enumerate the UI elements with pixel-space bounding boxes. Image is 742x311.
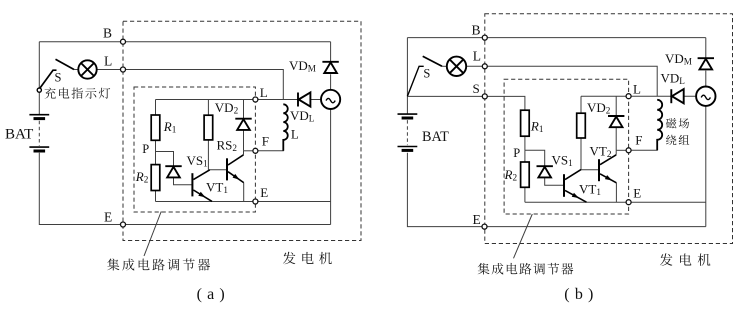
label 绕组 (b)	[666, 135, 689, 145]
transistor VT1 (b)	[564, 170, 587, 203]
charge indicator lamp (a)	[78, 60, 96, 78]
wire: node P to zener VS1 (a)	[156, 152, 174, 167]
diode VD_M (a)	[322, 62, 338, 73]
diode VD2 (a)	[235, 119, 251, 130]
svg-text:E: E	[260, 185, 268, 200]
wire: VD_M branch from B rail (b)	[705, 38, 707, 87]
switch S blade (b)	[407, 56, 442, 96]
transistor VT1 driver (a)	[192, 170, 212, 202]
node E outer (b)	[482, 224, 487, 229]
label 发电机 (b)	[660, 253, 711, 266]
node L inner (a)	[253, 97, 258, 102]
wire: F junction to node F (a)	[244, 150, 256, 152]
wire: inner node E to generator (b)	[629, 201, 706, 203]
svg-text:L: L	[104, 54, 112, 69]
wire: battery- down and E rail (b)	[407, 153, 705, 227]
svg-text:F: F	[635, 133, 642, 148]
node L (a)	[121, 67, 126, 72]
svg-text:E: E	[633, 185, 641, 200]
svg-text:P: P	[513, 146, 520, 160]
svg-text:S: S	[473, 81, 480, 96]
svg-text:P: P	[142, 142, 149, 156]
resistor R2 (a)	[151, 165, 160, 191]
switch S blade (a)	[37, 59, 74, 92]
field winding L (a)	[283, 104, 287, 151]
generator dashed box (b) 发电机	[485, 14, 733, 244]
wire: R1 stubs (a)	[155, 100, 157, 152]
node B (a)	[121, 39, 126, 44]
wire: leader line 集成电路调节器 (b)	[514, 214, 533, 258]
svg-text:B: B	[103, 26, 112, 41]
wire: leader line 集成电路调节器 (a)	[144, 212, 161, 257]
wire: S rail (b)	[407, 96, 525, 110]
battery BAT (a)	[29, 115, 49, 151]
wire: driver collector junction to output base (a)	[209, 169, 226, 171]
wire: battery- down and E rail (a)	[39, 153, 330, 225]
wire: inner top rail L (a)	[156, 99, 256, 101]
svg-text:L: L	[633, 82, 641, 97]
node F (b)	[626, 148, 631, 153]
wire: node P to zener VS1 (b)	[525, 150, 545, 166]
svg-text:S: S	[423, 66, 430, 80]
transistor VT2 (b)	[599, 155, 616, 183]
node E outer (a)	[121, 222, 126, 227]
label 集成电路调节器 (b)	[478, 263, 574, 275]
wire: battery+ vertical (b)	[406, 38, 408, 115]
wire: F junction to node F (b)	[616, 149, 628, 151]
wire: VT2 emitter drop (b)	[615, 183, 617, 202]
field winding 磁场绕组 (b)	[657, 100, 662, 151]
resistor RS2 (a)	[204, 115, 213, 140]
svg-text:B: B	[472, 22, 481, 37]
label 集成电路调节器 (a)	[107, 258, 210, 270]
resistor R1 (a)	[151, 115, 160, 140]
regulator dashed box (b) 集成电路调节器	[504, 79, 628, 214]
wire: B rail (b)	[407, 37, 705, 39]
resistor R1 (b)	[521, 110, 530, 136]
generator armature ~ (b)	[696, 87, 715, 106]
wire: blade to lamp (b)	[442, 65, 447, 67]
wire: B rail (a)	[39, 41, 330, 43]
zener diode VS1 (b)	[537, 166, 553, 177]
wire: R1 stub down to P (b)	[524, 136, 526, 150]
wire: VT2 collector riser (b)	[615, 150, 617, 155]
wire: switch pivot to battery (a)	[38, 92, 40, 115]
wire: output emitter drop to E rail (a)	[243, 183, 245, 202]
wire: battery+ up to B rail (a)	[38, 42, 40, 88]
generator armature ~ (a)	[321, 90, 340, 109]
wire: VD2 stubs (b)	[615, 96, 617, 150]
svg-text:L: L	[260, 85, 268, 100]
wire: inner top rail (b)	[581, 95, 629, 97]
diode VD_M (b)	[698, 58, 714, 69]
generator dashed box (a) 发电机	[123, 21, 361, 240]
wire: VD_M branch from B rail (a)	[330, 42, 332, 90]
diode VD_L (b)	[671, 89, 683, 103]
resistor R2 (b)	[521, 162, 530, 187]
svg-text:BAT: BAT	[5, 126, 33, 142]
wire: VS1 to VT1 base (b)	[545, 177, 563, 185]
wire: pull-up resistor stubs (b)	[580, 96, 582, 169]
wire: lamp to node L and to field drop (a)	[97, 70, 284, 100]
wire: inner bottom rail E (a)	[156, 201, 256, 203]
svg-text:( b ): ( b )	[564, 286, 594, 303]
wire: generator to E rails (a)	[330, 109, 332, 225]
diode VD2 (b)	[608, 116, 624, 127]
svg-text:S: S	[55, 71, 62, 85]
node S (b)	[482, 94, 487, 99]
wire: VS1 to VT1 base (a)	[174, 177, 192, 184]
wire: R2 stubs (a)	[155, 152, 157, 202]
wire: node L to VD_L and generator (b)	[629, 95, 697, 97]
node E inner (a)	[253, 199, 258, 204]
wire: node F to field coil (a)	[255, 140, 283, 151]
zener diode VS1 (a)	[165, 166, 181, 177]
battery BAT (b)	[398, 114, 418, 150]
wire: lamp left lead (a)	[74, 69, 78, 71]
wire: RS2 stubs (a)	[207, 100, 209, 170]
node B (b)	[482, 35, 487, 40]
wire: node L to VD_L and generator (a)	[255, 99, 321, 101]
wire: inner node E to generator (a)	[255, 201, 330, 203]
wire: generator to E rails (b)	[705, 106, 707, 227]
wire: VT1 collector junction to VT2 base (b)	[581, 169, 598, 171]
label 充电指示灯 (a)	[44, 87, 110, 98]
label 发电机 (a)	[283, 252, 332, 265]
wire: VD2 stubs (a)	[243, 100, 245, 151]
svg-text:F: F	[262, 134, 269, 149]
node L inner (b)	[626, 94, 631, 99]
wire: node F to field coil (b)	[629, 142, 658, 151]
regulator dashed box (a) 集成电路调节器	[134, 87, 255, 212]
svg-text:( a ): ( a )	[197, 286, 226, 303]
svg-text:L: L	[291, 127, 299, 142]
wire: inner bottom rail E (b)	[525, 201, 629, 203]
transistor VT1 output (a)	[227, 155, 244, 183]
svg-text:E: E	[473, 212, 481, 227]
wire: lamp to node L and field drop (b)	[466, 66, 657, 96]
node L (b)	[482, 64, 487, 69]
label 磁场 (b)	[666, 118, 689, 128]
diode VD_L (a)	[298, 92, 310, 106]
svg-text:E: E	[104, 210, 112, 225]
node E inner (b)	[626, 200, 631, 205]
charge indicator lamp (b)	[447, 57, 466, 76]
svg-text:L: L	[473, 49, 481, 64]
wire: output collector riser to F junction (a)	[243, 151, 245, 155]
pull-up resistor (b)	[577, 113, 586, 138]
node F (a)	[253, 148, 258, 153]
svg-text:BAT: BAT	[422, 129, 449, 145]
wire: R2 stubs (b)	[524, 150, 526, 202]
